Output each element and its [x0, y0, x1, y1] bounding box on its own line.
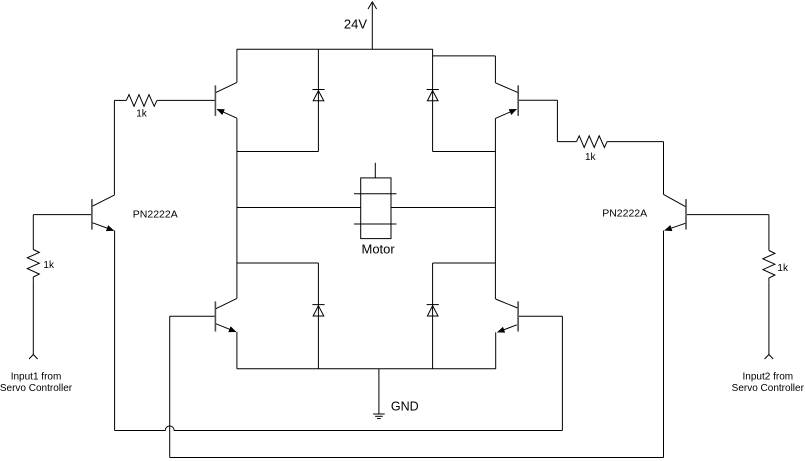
- wire right leg upper: [494, 56, 496, 83]
- transistor Q2 right PN2222A bar: [685, 199, 687, 230]
- wire lower-left base: [170, 315, 215, 317]
- wire motor left: [237, 207, 361, 209]
- svg-text:PN2222A: PN2222A: [133, 208, 178, 220]
- wire Q2 base: [687, 214, 769, 216]
- wire bottom-most rail: [170, 457, 664, 459]
- transistor lower-left NPN collector: [216, 298, 237, 308]
- svg-text:PN2222A: PN2222A: [602, 207, 647, 219]
- wire Q2 collector up: [663, 142, 665, 195]
- svg-text:GND: GND: [391, 400, 419, 414]
- transistor lower-right NPN collector: [496, 299, 518, 308]
- motor M1: [354, 163, 397, 239]
- diode D2 upper-right: [427, 49, 439, 151]
- wire Q1 base: [33, 214, 91, 216]
- wire upper cell bottom left: [237, 151, 319, 153]
- svg-text:1k: 1k: [585, 152, 597, 163]
- diode D3 lower-left: [312, 263, 324, 369]
- transistor Q1 left PN2222A bar: [91, 199, 93, 230]
- svg-text:Servo Controller: Servo Controller: [0, 383, 73, 394]
- diode D4 lower-right: [427, 263, 439, 369]
- transistor upper-left PNP bar: [214, 85, 216, 116]
- node left leg upper (collector wire of upper-left PNP): [236, 49, 238, 82]
- transistor Q2 collector: [664, 194, 686, 206]
- svg-text:1k: 1k: [777, 263, 789, 274]
- svg-text:Motor: Motor: [362, 242, 396, 257]
- wire lower-right emitter drop: [495, 332, 497, 369]
- wire bottom rail: [237, 368, 496, 370]
- svg-text:Input1 from: Input1 from: [11, 372, 62, 383]
- transistor upper-left PNP emitter (arrow to bar): [217, 109, 237, 118]
- svg-text:1k: 1k: [136, 109, 148, 120]
- svg-text:Input2 from: Input2 from: [743, 372, 794, 383]
- transistor lower-left NPN emitter (arrow outward): [216, 324, 236, 332]
- wire left leg middle: [236, 118, 238, 298]
- diode D1 upper-left: [312, 49, 324, 151]
- wire lower-left emitter drop: [236, 332, 238, 369]
- wire lower cell top right: [433, 262, 496, 264]
- wire lower-left base vertical: [169, 316, 171, 457]
- svg-text:1k: 1k: [43, 260, 55, 271]
- resistor R3 1k (right horizontal): [557, 136, 663, 148]
- wire Q1 emitter drop: [114, 231, 116, 431]
- transistor lower-right NPN emitter (arrow outward): [498, 325, 517, 332]
- resistor R4 1k (right vertical): [763, 215, 775, 355]
- wire motor right: [391, 207, 495, 209]
- input2 terminal: [765, 355, 774, 360]
- transistor Q2 emitter (arrow outward): [665, 223, 686, 230]
- wire upper cell bottom right: [433, 151, 496, 153]
- wire top rail right segment: [433, 55, 496, 57]
- svg-text:24V: 24V: [344, 17, 367, 32]
- wire Q1 collector up: [113, 100, 115, 194]
- transistor upper-right PNP bar: [517, 85, 519, 116]
- wire upper-right base riser: [556, 100, 558, 141]
- 24V supply arrow: [368, 2, 377, 49]
- resistor R2 1k (left vertical): [27, 215, 39, 355]
- wire bottom cross line with hop: [115, 426, 563, 431]
- svg-text:Servo Controller: Servo Controller: [732, 383, 805, 394]
- input1 terminal: [29, 355, 38, 360]
- transistor upper-right PNP collector: [495, 83, 517, 93]
- transistor lower-left NPN bar: [214, 301, 216, 331]
- transistor upper-right PNP emitter (arrow to bar): [495, 109, 516, 118]
- wire right leg middle: [494, 118, 496, 299]
- wire lower cell top left: [237, 262, 319, 264]
- wire lower-right base: [519, 315, 562, 317]
- wire top rail: [237, 48, 433, 50]
- transistor lower-right NPN bar: [517, 301, 519, 331]
- ground symbol: [373, 369, 385, 419]
- resistor R1 1k (top-left horizontal): [114, 95, 214, 107]
- transistor Q1 collector: [93, 195, 115, 206]
- transistor upper-left PNP collector: [216, 82, 237, 92]
- wire upper-right base: [519, 99, 557, 101]
- wire Q2 emitter drop: [663, 231, 665, 458]
- wire lower-right base riser: [561, 316, 563, 430]
- transistor Q1 emitter (arrow outward): [93, 223, 114, 231]
